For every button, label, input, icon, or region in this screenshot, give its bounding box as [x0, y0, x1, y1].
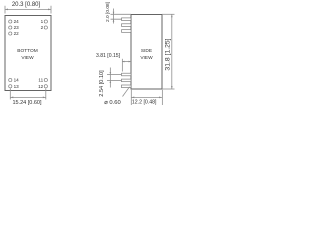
svg-text:SIDE: SIDE: [141, 48, 152, 54]
pin 13: [9, 84, 19, 89]
pin 24: [9, 19, 19, 24]
pin 14: [9, 78, 19, 83]
svg-text:VIEW: VIEW: [21, 55, 34, 61]
pin 11: [38, 78, 47, 83]
side view bottom pins (positions 10-12): [122, 73, 132, 87]
svg-text:VIEW: VIEW: [140, 55, 153, 61]
pin 23: [9, 25, 19, 30]
pin 1: [41, 19, 48, 24]
svg-text:12: 12: [38, 84, 44, 89]
dimension 2.0 [0.08] top edge to first pin row: [111, 9, 132, 24]
svg-text:31.8 [1.25]: 31.8 [1.25]: [165, 38, 172, 70]
dimension 12.2 [0.48] below side view: [131, 90, 162, 105]
dimension 3.81 [0.15] pin length: [122, 59, 131, 72]
svg-text:22: 22: [14, 31, 20, 36]
svg-text:15.24 [0.60]: 15.24 [0.60]: [12, 100, 42, 106]
pin 2: [41, 25, 48, 30]
svg-text:23: 23: [14, 25, 20, 30]
svg-text:2: 2: [41, 25, 44, 30]
svg-text:⌀ 0.60: ⌀ 0.60: [104, 100, 120, 106]
svg-text:24: 24: [14, 19, 20, 24]
dimension 31.8 [1.25] right of side view: [162, 14, 175, 89]
svg-text:11: 11: [38, 78, 43, 83]
pin 22: [9, 31, 19, 36]
pin diameter callout 0.60: [123, 87, 130, 97]
pin 12: [38, 84, 47, 89]
svg-text:BOTTOM: BOTTOM: [17, 48, 37, 54]
svg-text:14: 14: [14, 78, 20, 83]
dimension 20.3 [0.80] top of bottom view: [5, 6, 51, 14]
bottom view label: [17, 48, 37, 61]
side view top pins (positions 1-3): [122, 18, 132, 32]
svg-text:2.0 [0.08]: 2.0 [0.08]: [105, 2, 111, 22]
dimension 15.24 [0.60] below bottom view: [10, 88, 46, 99]
svg-text:2.54 [0.10]: 2.54 [0.10]: [99, 70, 105, 97]
svg-text:20.3 [0.80]: 20.3 [0.80]: [12, 2, 41, 8]
bottom view package outline: [5, 16, 51, 91]
side view package outline: [131, 14, 162, 89]
side view label: [140, 48, 153, 61]
svg-text:3.81 [0.15]: 3.81 [0.15]: [96, 53, 121, 59]
dimension 2.54 [0.1] pin pitch: [107, 68, 122, 88]
svg-text:1: 1: [41, 19, 44, 24]
svg-text:12.2 [0.48]: 12.2 [0.48]: [132, 99, 157, 105]
svg-text:13: 13: [14, 84, 20, 89]
